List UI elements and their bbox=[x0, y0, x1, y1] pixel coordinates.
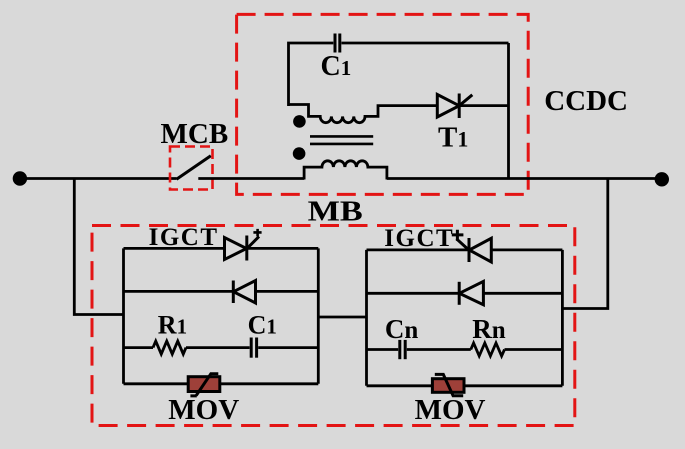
wire: rail3 between Cn and Rn bbox=[407, 348, 471, 351]
thyristor T1 bbox=[437, 94, 472, 119]
wire: right module rail3 right bbox=[505, 348, 563, 351]
left terminal dot bbox=[13, 171, 27, 185]
capacitor C1 (snubber left) bbox=[251, 338, 256, 358]
wire: main bus left segment bbox=[20, 177, 177, 180]
svg-text:MOV: MOV bbox=[415, 394, 486, 426]
IGCT thyristor Qn (right module, pointing left) bbox=[452, 230, 492, 262]
wire: left branch drop to left IGCT module bbox=[74, 179, 123, 315]
resistor Rn bbox=[471, 343, 505, 356]
wire: right module rail4 bbox=[367, 384, 563, 387]
wire: right module rail1 bbox=[367, 248, 563, 251]
svg-text:MCB: MCB bbox=[161, 118, 229, 150]
capacitor C1 (commutation, top) bbox=[335, 34, 340, 53]
IGCT modules enclosure (red dashed) bbox=[92, 226, 575, 426]
polarity dot (primary) bbox=[293, 147, 306, 160]
polarity dot (secondary) bbox=[293, 115, 306, 128]
wire: right branch drop to right IGCT module bbox=[562, 179, 607, 309]
svg-text:IGCT: IGCT bbox=[384, 225, 454, 252]
svg-text:C1: C1 bbox=[248, 310, 278, 339]
svg-text:T1: T1 bbox=[438, 122, 468, 154]
svg-text:IGCT: IGCT bbox=[149, 224, 219, 251]
IGCT thyristor Q1 (left module) bbox=[225, 229, 262, 261]
transformer core bbox=[310, 136, 373, 144]
left module frame right edge bbox=[317, 248, 320, 383]
wire: main bus right segment bbox=[387, 177, 662, 180]
resistor R1 bbox=[153, 341, 186, 354]
wire: left module rail4 bbox=[124, 382, 319, 385]
right terminal dot bbox=[655, 172, 669, 186]
wire: right module rail2 bbox=[367, 292, 563, 295]
right module frame right edge bbox=[561, 250, 564, 386]
wire: T1 to CCDC right bbox=[459, 104, 508, 107]
wire: left module rail3 left bbox=[124, 346, 154, 349]
svg-text:Rn: Rn bbox=[472, 314, 507, 344]
svg-text:MOV: MOV bbox=[168, 394, 239, 426]
diode D1 (left module, pointing left) bbox=[233, 281, 255, 304]
svg-text:C1: C1 bbox=[321, 51, 352, 82]
svg-text:R1: R1 bbox=[158, 310, 188, 339]
switch MCB blade bbox=[177, 156, 211, 179]
wire: C1 loop top right bbox=[342, 42, 509, 45]
wire: left module rail1 bbox=[124, 247, 319, 250]
svg-text:Cn: Cn bbox=[385, 314, 420, 344]
CCDC enclosure (red dashed) bbox=[237, 14, 529, 194]
wire: rail3 between R1 and C1 bbox=[186, 346, 250, 349]
wire: left module rail3 right bbox=[258, 346, 318, 349]
wire: left module link to right module bbox=[318, 316, 366, 319]
transformer secondary winding (top) bbox=[289, 105, 438, 123]
svg-text:CCDC: CCDC bbox=[544, 85, 628, 117]
transformer primary winding (series in bus) bbox=[304, 161, 387, 180]
left module frame left edge bbox=[122, 248, 125, 383]
varistor MOV (right module, mirrored) bbox=[432, 374, 464, 395]
wire: main bus MCB to transformer bbox=[198, 177, 304, 180]
svg-text:MB: MB bbox=[308, 195, 363, 227]
right module frame left edge bbox=[365, 250, 368, 386]
MCB enclosure (red dashed) bbox=[170, 147, 213, 190]
capacitor Cn bbox=[400, 340, 405, 359]
varistor MOV (left module) bbox=[188, 374, 220, 396]
diode Dn (right module, pointing left) bbox=[459, 281, 483, 304]
wire: C1 loop top left bbox=[289, 43, 334, 106]
wire: left module rail2 bbox=[124, 290, 319, 293]
wire: CCDC right vertical bbox=[507, 43, 510, 179]
wire: right module rail3 left bbox=[367, 348, 399, 351]
